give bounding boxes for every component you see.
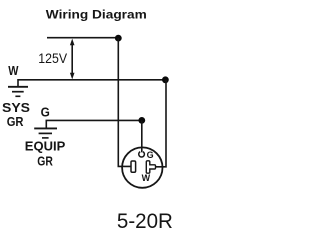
ground pin horseshoe <box>139 152 145 157</box>
svg-text:SYS: SYS <box>2 100 30 115</box>
wire neutral vertical to receptacle <box>155 80 166 167</box>
receptacle outline 5-20R <box>122 147 162 187</box>
svg-text:GR: GR <box>7 114 24 129</box>
svg-text:G: G <box>41 104 50 119</box>
wire neutral horizontal <box>18 80 166 87</box>
wire ground vertical to receptacle <box>141 120 143 152</box>
node equipment ground junction <box>138 117 145 124</box>
ground SYS GR symbol <box>8 87 28 97</box>
slot hot (narrow) <box>131 161 136 172</box>
node neutral junction <box>162 76 169 83</box>
node hot junction <box>115 35 122 42</box>
svg-text:125V: 125V <box>38 51 67 67</box>
ground EQUIP GR symbol <box>34 128 57 138</box>
wire hot top line <box>47 37 118 39</box>
voltage arrow 125V <box>70 39 75 80</box>
svg-text:Wiring Diagram: Wiring Diagram <box>46 8 147 22</box>
svg-text:EQUIP: EQUIP <box>25 139 66 154</box>
wire hot vertical to receptacle <box>118 38 131 166</box>
svg-text:G: G <box>147 150 154 160</box>
svg-text:GR: GR <box>37 153 53 168</box>
svg-text:5-20R: 5-20R <box>117 210 173 233</box>
svg-text:W: W <box>8 63 19 78</box>
svg-text:W: W <box>142 173 151 183</box>
wire equipment ground horizontal <box>46 120 142 127</box>
slot neutral T-shape <box>146 161 155 173</box>
